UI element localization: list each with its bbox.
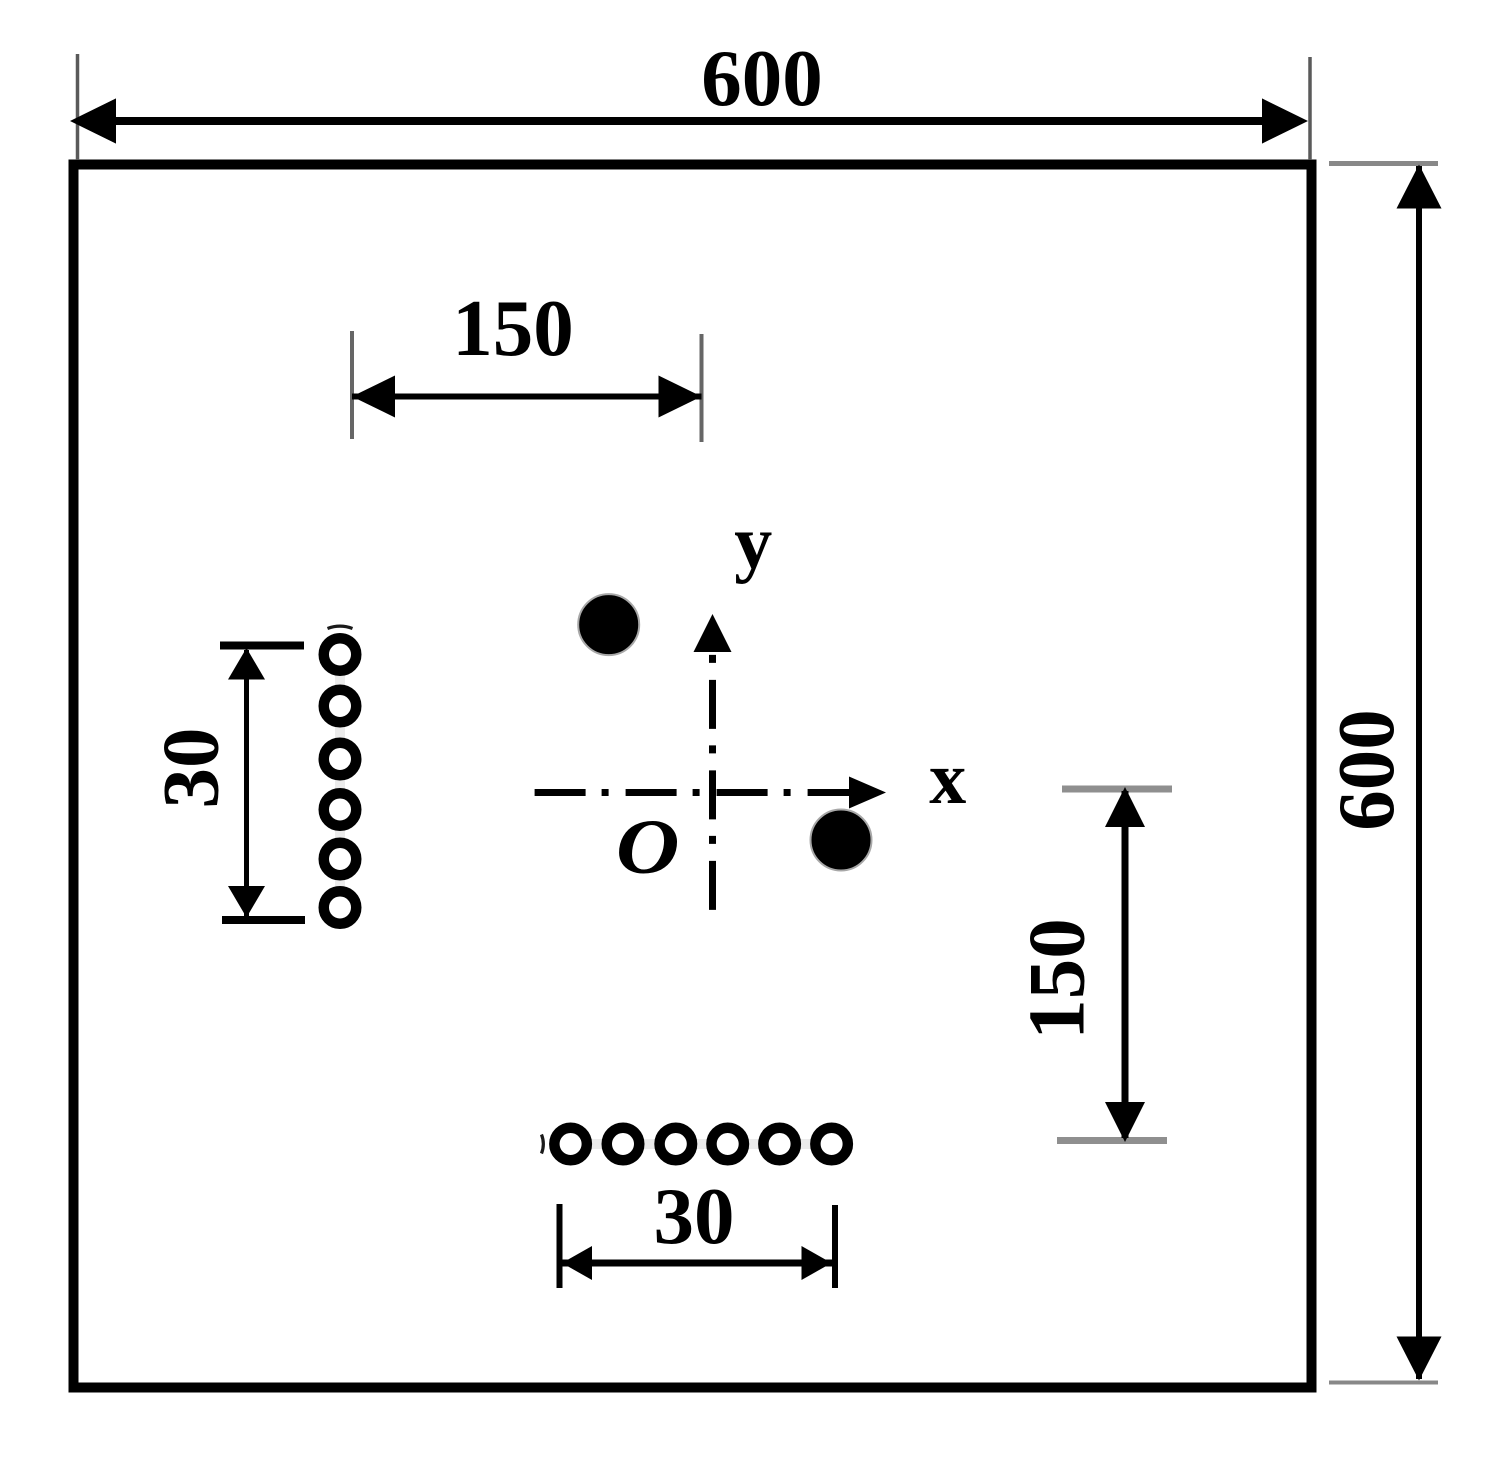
svg-text:150: 150 (452, 283, 574, 373)
dimension 600 top: right arrowhead (1262, 98, 1308, 143)
dimension 150 upper-left: left arrowhead (352, 376, 395, 418)
x axis centerline (dash-dot) (535, 789, 852, 796)
bottom hole row: hole 2 (607, 1128, 640, 1161)
dimension 600 top: dimension line (108, 117, 1270, 125)
svg-text:y: y (734, 501, 772, 585)
left hole column: faint ghost line (335, 636, 345, 925)
svg-text:600: 600 (1321, 709, 1411, 831)
dimension 150 upper-left: right arrowhead (659, 376, 702, 418)
dimension 150 upper-left: extension line left (350, 331, 354, 439)
filled sensor dot right of origin (811, 810, 872, 871)
bottom hole row: faint ghost line (552, 1139, 848, 1149)
bottom hole row: hole 3 (660, 1128, 693, 1161)
dimension 600 right: dimension line (1416, 166, 1422, 1379)
plate outline (74, 165, 1312, 1388)
dimension 30 bottom: dimension line (562, 1260, 832, 1267)
svg-text:O: O (616, 804, 680, 890)
left hole column: hole 6 (324, 891, 357, 924)
dimension 30 left: extension line top (220, 642, 304, 650)
dimension 30 bottom: left arrowhead (562, 1246, 592, 1280)
dimension 600 top: left arrowhead (70, 98, 116, 143)
dimension 150 right: dimension line (1122, 791, 1129, 1138)
left hole column: hole 1 (324, 638, 357, 671)
left hole column: clipped top hole sliver (328, 626, 353, 628)
dimension 30 left: extension line bottom (222, 916, 305, 924)
dimension 150 upper-left: extension line right (700, 334, 704, 442)
dimension 150 right: bottom arrowhead (1105, 1102, 1145, 1142)
dimension 600 right: bottom arrowhead (1397, 1337, 1442, 1381)
left hole column: hole 2 (324, 690, 357, 723)
filled sensor dot upper-left of origin (578, 594, 639, 655)
bottom hole row: hole 4 (711, 1128, 744, 1161)
left hole column: hole 3 (324, 743, 357, 776)
svg-text:30: 30 (654, 1171, 735, 1261)
bottom hole row: clipped left hole sliver (542, 1135, 544, 1154)
dimension 600 right: top arrowhead (1397, 165, 1442, 209)
dimension 30 bottom: extension line right (832, 1205, 838, 1288)
x axis arrowhead (849, 777, 886, 809)
dimension 150 upper-left: dimension line (352, 394, 702, 400)
dimension 150 right: extension line bottom (1057, 1137, 1167, 1144)
y axis centerline (dash-dot) (709, 655, 716, 910)
bottom hole row: hole 5 (763, 1128, 796, 1161)
svg-text:30: 30 (146, 728, 236, 809)
dimension 600 right: extension line top (1329, 161, 1438, 166)
svg-text:150: 150 (1012, 918, 1102, 1040)
dimension 600 right: extension line bottom (1329, 1381, 1438, 1385)
left hole column: hole 4 (324, 793, 357, 826)
dimension 150 right: extension line top (1062, 786, 1172, 793)
left hole column: hole 5 (324, 843, 357, 876)
dimension 30 left: dimension line (244, 650, 249, 916)
dimension 150 right: top arrowhead (1105, 787, 1145, 827)
bottom hole row: hole 6 (815, 1128, 848, 1161)
dimension 30 left: bottom arrowhead (228, 886, 265, 918)
y axis arrowhead (694, 614, 732, 652)
dimension 600 top: extension line left (76, 54, 80, 160)
dimension 600 top: extension line right (1308, 57, 1312, 160)
svg-text:x: x (929, 738, 966, 820)
dimension 30 bottom: extension line left (557, 1204, 563, 1288)
dimension 30 bottom: right arrowhead (802, 1246, 832, 1280)
svg-text:600: 600 (701, 33, 823, 123)
bottom hole row: hole 1 (554, 1128, 587, 1161)
dimension 30 left: top arrowhead (228, 648, 265, 680)
